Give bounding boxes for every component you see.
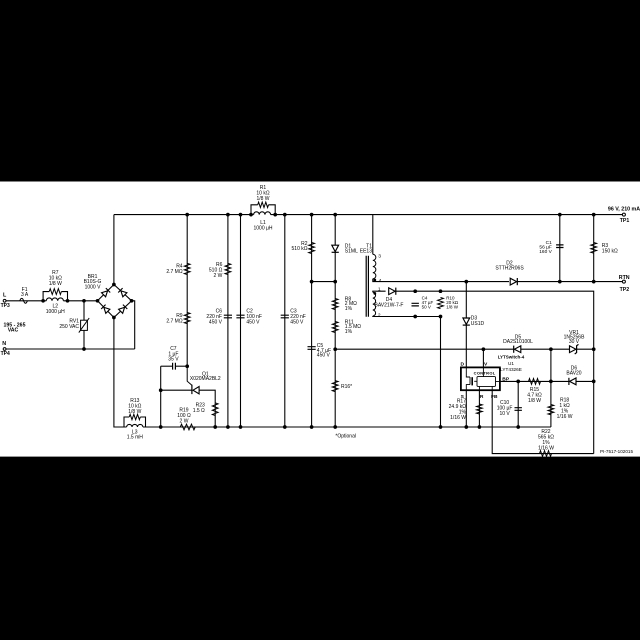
- wire: R2/C5 branch vertical: [311, 215, 313, 427]
- wire: C10 branch vertical: [517, 381, 519, 427]
- svg-text:LYTSwitch-4: LYTSwitch-4: [498, 354, 525, 359]
- wire: U1 FB pin down and feedback line through R22 to right riser: [492, 390, 594, 453]
- svg-text:X020MA2BL2: X020MA2BL2: [190, 376, 221, 382]
- svg-text:1%: 1%: [345, 306, 353, 312]
- terminal TP1 output +: [622, 213, 625, 216]
- diode D6 BAV20: [570, 378, 576, 385]
- svg-text:BP: BP: [502, 377, 510, 383]
- resistor R15 4.7 kOhm 1/8 W: [529, 379, 541, 385]
- SCR Q1 X020MA2BL2: [193, 387, 199, 394]
- node: C6 on bottom rail: [226, 425, 230, 429]
- svg-text:1000 V: 1000 V: [85, 285, 102, 291]
- wire: C7 right plate lead to gate node: [175, 365, 187, 367]
- resistor R3 150 kOhm: [591, 243, 597, 254]
- node: L1 left on rail: [249, 213, 253, 217]
- resistor R13 10 kOhm 1/8 W (parallel with L3): [124, 417, 129, 427]
- node: L1 right on rail: [273, 213, 277, 217]
- svg-text:RTN: RTN: [619, 275, 630, 281]
- wire: T1 primary top lead from rail: [372, 215, 374, 255]
- diode D5 DA2S10100L: [514, 346, 520, 353]
- svg-text:PI-7517-102015: PI-7517-102015: [600, 449, 633, 454]
- svg-text:1.5 Ω: 1.5 Ω: [193, 408, 205, 414]
- wire: bridge right corner to N line: [132, 301, 135, 349]
- svg-text:1/16 W: 1/16 W: [538, 445, 554, 451]
- svg-text:2.7 MΩ: 2.7 MΩ: [166, 269, 183, 275]
- node: C7 to Q1 anode: [159, 388, 163, 392]
- resistor R6 510 Ohm 2 W: [225, 263, 231, 274]
- capacitor C7 1 uF 35 V: [173, 363, 176, 370]
- transformer T1 core: [366, 256, 368, 317]
- svg-text:160 V: 160 V: [539, 249, 552, 255]
- svg-text:1/8 W: 1/8 W: [128, 409, 141, 415]
- node: R7/L2 right: [66, 299, 70, 303]
- wire: D1/R8/R11/R16 branch vertical: [334, 215, 336, 427]
- wire: T1 pin1 lead and bias line to D4: [373, 291, 386, 292]
- resistor R19 100 Ohm 2 W in bottom rail: [180, 424, 195, 430]
- fuse F1 3 A: [20, 298, 28, 303]
- terminal TP4 (N): [3, 348, 6, 351]
- svg-text:4: 4: [379, 278, 382, 284]
- svg-text:LYT4326E: LYT4326E: [500, 367, 522, 372]
- svg-text:1.5 mH: 1.5 mH: [127, 435, 144, 441]
- wire: bottom return rail from L3 to R18 foot: [143, 426, 551, 428]
- node: D6 right on bias riser: [592, 380, 596, 384]
- svg-text:96 V, 210 mA: 96 V, 210 mA: [608, 206, 640, 212]
- node: pin4 line to D3 branch: [464, 280, 468, 284]
- node: C2 on top rail: [239, 213, 243, 217]
- node: R11 bottom / V-node line: [333, 347, 337, 351]
- wire: divider branch R4/R9 vertical from top rail to gate node: [186, 215, 188, 367]
- white schematic canvas: [0, 182, 640, 457]
- node: bridge left corner: [96, 299, 100, 303]
- capacitor C3 220 nF 450 V: [281, 315, 289, 318]
- node: R10 bottom: [439, 315, 443, 319]
- resistor R11 1.5 MOhm 1%: [332, 322, 338, 333]
- wire: U1 R pin through R17 to bottom rail: [478, 390, 480, 427]
- wire: Q1 branch vertical at x=160.7: [160, 366, 162, 427]
- node: RV1 on N line: [82, 347, 86, 351]
- node: RV1 tap on L line: [82, 299, 86, 303]
- svg-text:35 V: 35 V: [168, 356, 179, 362]
- diode D1 S1ML: [332, 245, 339, 251]
- capacitor C1 56 uF 160 V electrolytic: [556, 245, 563, 248]
- node: R10 top: [439, 289, 443, 293]
- svg-text:TP3: TP3: [1, 303, 10, 309]
- svg-text:D: D: [461, 361, 465, 367]
- node: pin2 riser on bottom rail: [439, 425, 443, 429]
- inductor L1 1000 uH: [254, 212, 271, 215]
- diode D2 STTH2R06S: [510, 278, 516, 285]
- resistor R10 20 kOhm 1/8 W: [438, 298, 444, 309]
- wire: L input line from TP3 through fuse to bridge left corner: [6, 300, 46, 302]
- node: C3 on bottom rail: [283, 425, 287, 429]
- node: C3 on top rail: [283, 213, 287, 217]
- svg-text:2: 2: [378, 312, 381, 318]
- capacitor C5 4.7 uF 450 V: [308, 347, 316, 350]
- node: R16 on bottom rail: [333, 425, 337, 429]
- wire: C7 left plate lead: [161, 365, 173, 367]
- svg-text:FB: FB: [491, 394, 498, 400]
- svg-text:2 W: 2 W: [214, 273, 223, 279]
- svg-text:450 V: 450 V: [209, 319, 223, 325]
- bridge rectifier BR1 B10S-G 1000 V diamond: [98, 285, 132, 318]
- resistor R23 1.5 Ohm: [212, 403, 218, 416]
- capacitor C4 47 uF 50 V electrolytic: [412, 303, 419, 306]
- U1 control block internal leads: [479, 367, 500, 390]
- svg-text:VAC: VAC: [8, 328, 19, 334]
- node: Q1 vertical on bottom rail: [159, 425, 163, 429]
- transformer T1 primary winding pins 3-4: [373, 254, 376, 278]
- resistor R1 10 kOhm 1/8 W (parallel with L1): [251, 205, 258, 215]
- node: bridge right corner: [130, 299, 134, 303]
- transformer T1 bias winding pins 1-2: [373, 292, 376, 316]
- wire: D4 cathode to bias node line to right riser: [393, 291, 594, 349]
- zener diode VR1 1N5256B 30 V: [570, 346, 576, 353]
- wire: RV1 varistor branch vertical: [83, 301, 85, 349]
- svg-text:BAV20: BAV20: [566, 370, 581, 376]
- wire: R2 bottom to D1 bottom link: [312, 281, 336, 283]
- node: R6 on top rail: [226, 213, 230, 217]
- wire: N input line from TP4 to bridge right corner drop: [6, 348, 135, 350]
- wire: T1 pin2 line to R10 foot: [373, 315, 441, 318]
- node: C1 on RTN line: [558, 280, 562, 284]
- node: C4 top: [413, 289, 417, 293]
- svg-text:1000 µH: 1000 µH: [253, 225, 272, 231]
- wire: pin2 reference vertical down to bottom rail: [440, 317, 442, 428]
- wire: top DC rail from bridge to output TP1: [114, 214, 254, 216]
- node: R2 bottom junction: [310, 280, 314, 284]
- wire: T1 pin4 lead and line to D2 anode / RTN: [373, 279, 509, 282]
- svg-text:N: N: [2, 341, 6, 347]
- svg-text:1/8 W: 1/8 W: [528, 398, 541, 404]
- inductor L2 1000 uH: [46, 298, 63, 301]
- resistor R18 1 kOhm 1% 1/16 W: [548, 405, 554, 415]
- resistor R16* optional: [332, 381, 338, 392]
- node: D1 on top rail: [333, 213, 337, 217]
- svg-text:450 V: 450 V: [290, 319, 304, 325]
- resistor R9 2.7 MOhm: [184, 313, 190, 324]
- svg-text:1/16 W: 1/16 W: [450, 415, 466, 421]
- U1 internal MOSFET: [466, 367, 470, 377]
- node: R7/L2 left: [41, 299, 45, 303]
- capacitor C2 100 nF 450 V: [236, 315, 244, 318]
- svg-text:30 V: 30 V: [569, 339, 580, 345]
- svg-text:STTH2R06S: STTH2R06S: [495, 266, 524, 272]
- svg-text:U1: U1: [508, 361, 514, 366]
- node: R3 on RTN line: [592, 280, 596, 284]
- bridge diode lower-right: [118, 305, 127, 314]
- node: C10 on bottom rail: [516, 425, 520, 429]
- node: bridge top corner: [112, 283, 116, 287]
- svg-text:CONTROL: CONTROL: [474, 370, 496, 375]
- svg-text:TP2: TP2: [620, 287, 630, 293]
- wire: bridge plus vertical riser: [113, 215, 115, 285]
- svg-text:R16*: R16*: [341, 384, 352, 390]
- node: C2 on bottom rail: [239, 425, 243, 429]
- IC U1 LYTSwitch-4 LYT4326E body: [461, 367, 500, 390]
- wire: U1 V pin riser: [482, 349, 484, 367]
- wire: right riser from VR1 node down to FB line: [593, 349, 595, 453]
- resistor R4 2.7 MOhm: [184, 263, 190, 274]
- node: V pin on V-node line: [482, 347, 486, 351]
- node: C5 on bottom rail: [310, 425, 314, 429]
- varistor RV1 250 VAC: [81, 320, 88, 330]
- svg-text:*Optional: *Optional: [335, 434, 356, 440]
- svg-text:R: R: [480, 394, 484, 400]
- terminal TP2 output RTN: [622, 280, 625, 283]
- svg-text:450 V: 450 V: [317, 353, 331, 359]
- node: S pin on bottom rail: [464, 425, 468, 429]
- svg-text:3: 3: [378, 254, 381, 260]
- svg-text:510 kΩ: 510 kΩ: [292, 246, 308, 252]
- node: C4 bottom: [413, 315, 417, 319]
- svg-text:1/8 W: 1/8 W: [256, 196, 269, 202]
- phasing dot pin 4: [373, 279, 376, 282]
- wire: D2 cathode to RTN terminal: [517, 281, 623, 283]
- svg-text:50 V: 50 V: [422, 304, 431, 309]
- node: bridge bottom corner: [112, 316, 116, 320]
- svg-text:1%: 1%: [345, 329, 353, 335]
- node: R17 on bottom rail: [478, 425, 482, 429]
- wire: U1 source pin to bottom rail: [465, 390, 467, 427]
- wire: C1 branch vertical: [559, 215, 561, 282]
- resistor R8 2 MOhm 1%: [332, 299, 338, 310]
- svg-text:S1ML: S1ML: [345, 249, 358, 255]
- U1 control block: [477, 377, 496, 387]
- svg-text:10 V: 10 V: [499, 411, 510, 417]
- svg-text:2.7 MΩ: 2.7 MΩ: [166, 318, 183, 324]
- inductor L3 1.5 mH: [127, 424, 143, 427]
- node: D5/VR1 junction to mid riser: [549, 347, 553, 351]
- wire: Q1 anode line: [161, 389, 192, 391]
- terminal TP3 (L): [3, 299, 6, 302]
- resistor R17 24.9 kOhm 1% 1/16 W: [477, 404, 483, 414]
- phasing dot pin 1: [373, 292, 376, 295]
- svg-text:BAV21W-7-F: BAV21W-7-F: [375, 303, 404, 309]
- node: R15/D6/R18 junction: [549, 380, 553, 384]
- wire: mid riser from D5/VR1 node through R18 to bottom rail: [550, 349, 552, 427]
- wire: C3 branch vertical: [284, 215, 286, 427]
- resistor R2 510 kOhm: [309, 243, 315, 254]
- wire: V-node line from R11 bottom to VR1 right: [335, 348, 594, 350]
- node: R23 on bottom rail: [213, 425, 217, 429]
- svg-text:2 W: 2 W: [180, 418, 189, 424]
- wire: bridge minus vertical down and bottom rail to L3: [114, 318, 127, 428]
- node: VR1 right on bias riser: [592, 347, 596, 351]
- wire: Q1 cathode line to R23 branch: [199, 390, 215, 427]
- node: divider on top rail: [185, 213, 189, 217]
- svg-text:150 kΩ: 150 kΩ: [602, 249, 618, 255]
- node: C1 on top rail: [558, 213, 562, 217]
- svg-text:3 A: 3 A: [21, 292, 29, 298]
- svg-text:450 V: 450 V: [246, 319, 260, 325]
- bridge diode upper-left: [101, 288, 110, 297]
- resistor R22 565 kOhm 1% 1/16 W in FB line: [540, 451, 552, 457]
- svg-text:TP4: TP4: [1, 351, 10, 357]
- svg-text:US1D: US1D: [471, 321, 485, 327]
- bridge diode upper-right: [118, 288, 127, 297]
- diode D4 BAV21W-7-F: [389, 288, 395, 295]
- resistor R7 10 kOhm 1/8 W (parallel with L2): [43, 292, 49, 301]
- node: gate node at divider: [185, 364, 189, 368]
- svg-text:EE13: EE13: [360, 248, 372, 254]
- wire: R6/C6 branch vertical: [227, 215, 229, 427]
- capacitor C10 100 uF 10 V electrolytic: [515, 408, 522, 411]
- svg-text:1000 µH: 1000 µH: [46, 309, 65, 315]
- svg-text:TP1: TP1: [620, 218, 630, 224]
- svg-text:250 VAC: 250 VAC: [59, 324, 79, 330]
- node: R2 on top rail: [310, 213, 314, 217]
- bridge diode lower-left: [101, 305, 110, 314]
- svg-text:1/16 W: 1/16 W: [557, 414, 573, 420]
- wire: C2 branch vertical: [240, 215, 242, 427]
- diode D3 US1D: [463, 318, 470, 324]
- svg-text:DA2S10100L: DA2S10100L: [503, 339, 533, 345]
- node: C10 on BP line: [516, 380, 520, 384]
- wire: BP line from U1 to D6 and right riser: [500, 380, 570, 382]
- node: D1 bottom junction: [333, 280, 337, 284]
- wire: R3 branch vertical: [593, 215, 595, 282]
- svg-text:1: 1: [378, 287, 381, 293]
- wire: drain branch from RTN line through D3 to U1 drain: [465, 282, 467, 368]
- capacitor C6 220 nF 450 V: [224, 315, 232, 318]
- node: R3 on top rail: [592, 213, 596, 217]
- svg-text:1/8 W: 1/8 W: [49, 281, 62, 287]
- svg-text:1/8 W: 1/8 W: [446, 304, 459, 309]
